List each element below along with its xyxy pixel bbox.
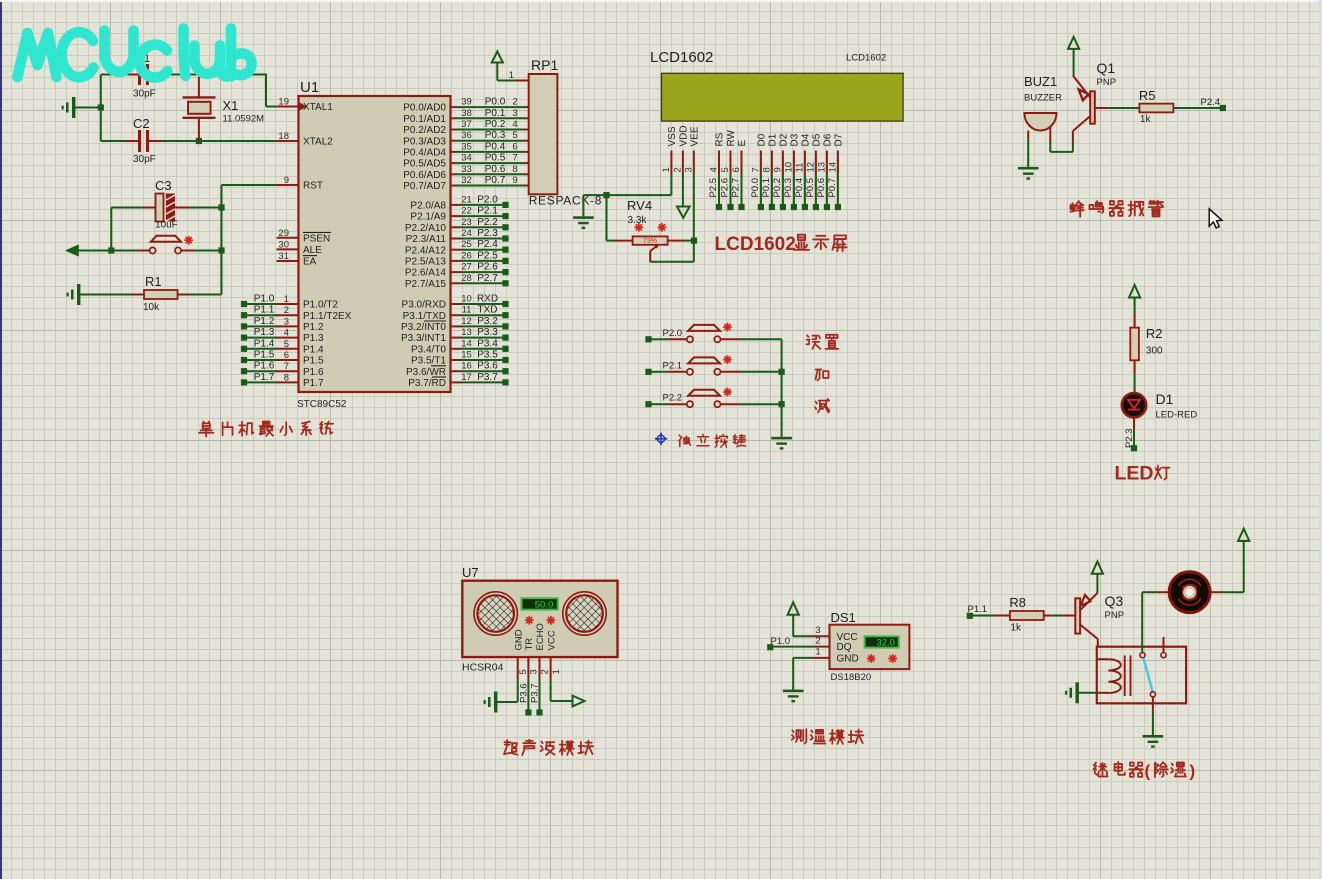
svg-text:10: 10: [461, 294, 472, 305]
svg-text:P3.2/INT0: P3.2/INT0: [401, 322, 446, 333]
svg-text:BUZZER: BUZZER: [1024, 93, 1062, 104]
svg-text:P3.7: P3.7: [530, 683, 541, 703]
svg-text:P3.3/INT1: P3.3/INT1: [401, 333, 446, 344]
svg-text:P2.7: P2.7: [477, 273, 498, 284]
svg-text:31: 31: [278, 251, 289, 262]
svg-text:P0.3: P0.3: [783, 178, 794, 198]
svg-text:1k: 1k: [1140, 114, 1152, 125]
svg-text:P0.3: P0.3: [485, 130, 506, 141]
svg-text:LED-RED: LED-RED: [1156, 410, 1198, 421]
svg-text:P1.0: P1.0: [771, 636, 791, 647]
svg-text:PNP: PNP: [1097, 77, 1117, 88]
svg-text:P2.5: P2.5: [477, 250, 498, 261]
svg-text:34: 34: [461, 153, 472, 164]
svg-text:7: 7: [284, 361, 289, 372]
svg-text:D3: D3: [790, 133, 801, 146]
svg-text:TXD: TXD: [478, 305, 498, 316]
svg-text:P2.1: P2.1: [663, 360, 683, 371]
svg-text:LED: LED: [1115, 463, 1154, 485]
svg-text:P3.6: P3.6: [477, 361, 498, 372]
svg-text:XTAL2: XTAL2: [303, 137, 333, 148]
svg-text:P2.6: P2.6: [720, 178, 731, 198]
svg-text:P1.4: P1.4: [254, 338, 275, 349]
svg-text:30pF: 30pF: [133, 89, 156, 100]
svg-text:28: 28: [461, 273, 472, 284]
svg-text:P0.1: P0.1: [485, 108, 506, 119]
svg-text:P3.5: P3.5: [477, 350, 498, 361]
svg-text:3: 3: [284, 316, 289, 327]
svg-text:RXD: RXD: [477, 294, 498, 305]
svg-text:5: 5: [518, 669, 529, 674]
svg-text:7: 7: [512, 153, 517, 164]
svg-text:RP1: RP1: [531, 57, 558, 73]
svg-text:4: 4: [284, 328, 289, 339]
svg-text:P3.6/WR: P3.6/WR: [406, 367, 446, 378]
svg-text:P3.2: P3.2: [477, 316, 498, 327]
svg-text:TR: TR: [524, 638, 535, 651]
svg-text:5: 5: [720, 167, 731, 172]
svg-text:P2.3/A11: P2.3/A11: [406, 234, 447, 245]
svg-text:9: 9: [772, 167, 783, 172]
svg-text:P0.6: P0.6: [485, 164, 506, 175]
svg-text:1: 1: [815, 647, 820, 658]
svg-text:P1.5: P1.5: [303, 356, 324, 367]
svg-text:P0.4: P0.4: [485, 141, 506, 152]
svg-text:PSEN: PSEN: [303, 233, 330, 244]
svg-text:C2: C2: [133, 116, 150, 131]
svg-text:2: 2: [284, 305, 289, 316]
svg-text:300: 300: [1146, 346, 1163, 357]
svg-text:Q3: Q3: [1105, 593, 1124, 609]
svg-text:ECHO: ECHO: [535, 623, 546, 650]
svg-text:R1: R1: [145, 274, 162, 289]
svg-text:P0.5/AD5: P0.5/AD5: [403, 159, 446, 170]
svg-text:32: 32: [461, 175, 472, 186]
svg-text:9: 9: [512, 175, 517, 186]
svg-text:P3.3: P3.3: [477, 327, 498, 338]
svg-text:8: 8: [761, 167, 772, 172]
svg-text:6: 6: [512, 141, 517, 152]
svg-text:9: 9: [284, 175, 289, 186]
svg-text:D1: D1: [768, 133, 779, 146]
svg-text:HCSR04: HCSR04: [462, 662, 504, 674]
svg-text:D7: D7: [834, 133, 845, 146]
svg-text:2: 2: [540, 669, 551, 674]
svg-text:LCD1602: LCD1602: [650, 49, 713, 66]
svg-text:7: 7: [750, 167, 761, 172]
svg-text:2: 2: [815, 635, 820, 646]
svg-text:P1.0: P1.0: [254, 294, 275, 305]
svg-text:6: 6: [731, 167, 742, 172]
svg-text:RW: RW: [726, 129, 737, 146]
svg-text:13: 13: [461, 327, 472, 338]
svg-text:GND: GND: [837, 654, 859, 665]
svg-text:P0.7: P0.7: [485, 175, 506, 186]
svg-text:P1.5: P1.5: [254, 350, 275, 361]
svg-text:26: 26: [461, 250, 472, 261]
svg-text:P0.0: P0.0: [750, 178, 761, 198]
svg-text:P1.7: P1.7: [303, 378, 324, 389]
svg-text:P1.7: P1.7: [254, 372, 275, 383]
svg-text:3: 3: [683, 167, 694, 172]
svg-text:X1: X1: [223, 98, 239, 113]
svg-text:U7: U7: [462, 565, 479, 580]
svg-text:11.0592M: 11.0592M: [223, 114, 265, 125]
svg-text:LCD1602: LCD1602: [846, 53, 886, 64]
svg-text:P2.0: P2.0: [477, 194, 498, 205]
svg-text:25: 25: [461, 239, 472, 250]
svg-text:36: 36: [461, 130, 472, 141]
svg-text:P0.7/AD7: P0.7/AD7: [403, 181, 446, 192]
svg-text:1k: 1k: [1010, 623, 1022, 634]
svg-text:P3.7: P3.7: [477, 372, 498, 383]
svg-text:R2: R2: [1146, 326, 1163, 341]
svg-text:P2.1: P2.1: [477, 206, 498, 217]
svg-text:P0.1/AD1: P0.1/AD1: [403, 114, 446, 125]
svg-text:P0.0/AD0: P0.0/AD0: [403, 103, 446, 114]
svg-text:P0.6: P0.6: [816, 178, 827, 198]
svg-text:P2.0: P2.0: [663, 328, 683, 339]
svg-text:VDD: VDD: [679, 125, 690, 146]
svg-text:1: 1: [509, 70, 514, 81]
svg-text:P3.5/T1: P3.5/T1: [411, 356, 446, 367]
svg-text:P2.4: P2.4: [477, 239, 498, 250]
svg-text:P2.7: P2.7: [731, 178, 742, 198]
svg-text:22: 22: [461, 206, 472, 217]
svg-text:24: 24: [461, 228, 472, 239]
svg-text:P2.6/A14: P2.6/A14: [405, 268, 447, 279]
svg-text:6: 6: [284, 350, 289, 361]
svg-text:33: 33: [461, 164, 472, 175]
svg-text:P3.0/RXD: P3.0/RXD: [402, 300, 446, 311]
svg-text:17: 17: [461, 372, 472, 383]
svg-text:18: 18: [278, 131, 289, 142]
svg-text:RS: RS: [715, 132, 726, 146]
svg-text:P1.2: P1.2: [254, 316, 275, 327]
svg-text:10: 10: [783, 162, 794, 173]
svg-text:EA: EA: [303, 257, 317, 268]
svg-text:P1.4: P1.4: [303, 344, 324, 355]
svg-text:P0.1: P0.1: [761, 178, 772, 198]
svg-text:12: 12: [805, 162, 816, 173]
svg-text:P0.2: P0.2: [485, 119, 506, 130]
svg-text:P2.1/A9: P2.1/A9: [410, 212, 446, 223]
svg-text:8: 8: [512, 164, 517, 175]
svg-text:8: 8: [284, 372, 289, 383]
svg-text:VCC: VCC: [546, 630, 557, 650]
svg-text:1: 1: [551, 669, 562, 674]
svg-text:D0: D0: [757, 133, 768, 146]
svg-text:30: 30: [278, 239, 289, 250]
svg-text:BUZ1: BUZ1: [1024, 74, 1057, 89]
svg-text:14: 14: [827, 162, 838, 173]
svg-text:D4: D4: [801, 133, 812, 146]
svg-text:10uF: 10uF: [155, 220, 178, 231]
svg-text:): ): [1190, 762, 1196, 781]
svg-text:P2.2: P2.2: [663, 393, 683, 404]
svg-text:D1: D1: [1156, 391, 1174, 407]
svg-text:2: 2: [672, 167, 683, 172]
svg-text:32.0: 32.0: [876, 638, 895, 649]
svg-text:30pF: 30pF: [133, 154, 156, 165]
svg-text:21: 21: [461, 194, 472, 205]
svg-text:R8: R8: [1009, 595, 1026, 610]
svg-text:C3: C3: [155, 178, 172, 193]
svg-text:P1.2: P1.2: [303, 322, 324, 333]
svg-text:P3.6: P3.6: [518, 683, 529, 703]
svg-text:RV4: RV4: [627, 198, 652, 213]
svg-text:P3.4: P3.4: [477, 338, 498, 349]
svg-text:P0.5: P0.5: [805, 178, 816, 198]
svg-text:23: 23: [461, 217, 472, 228]
svg-text:P2.2/A10: P2.2/A10: [405, 223, 447, 234]
svg-text:P2.0/A8: P2.0/A8: [410, 201, 446, 212]
svg-text:DS1: DS1: [831, 610, 856, 625]
svg-text:P2.2: P2.2: [477, 217, 498, 228]
svg-text:P0.4/AD4: P0.4/AD4: [403, 148, 446, 159]
svg-text:2: 2: [512, 97, 517, 108]
svg-text:LCD1602: LCD1602: [715, 234, 796, 255]
svg-text:13: 13: [816, 162, 827, 173]
svg-text:16: 16: [461, 361, 472, 372]
svg-text:P1.6: P1.6: [303, 367, 324, 378]
svg-text:29: 29: [278, 228, 289, 239]
svg-text:(: (: [1145, 762, 1151, 781]
svg-text:U1: U1: [300, 79, 319, 96]
svg-text:37: 37: [461, 119, 472, 130]
svg-text:12: 12: [461, 316, 472, 327]
svg-text:P2.7/A15: P2.7/A15: [405, 279, 447, 290]
svg-text:P2.4/A12: P2.4/A12: [405, 245, 447, 256]
svg-text:P0.7: P0.7: [827, 178, 838, 198]
svg-text:4: 4: [512, 119, 517, 130]
svg-text:P3.7/RD: P3.7/RD: [408, 378, 446, 389]
svg-text:39: 39: [461, 97, 472, 108]
svg-text:VEE: VEE: [689, 126, 700, 146]
svg-text:DQ: DQ: [837, 642, 852, 653]
svg-text:27: 27: [461, 262, 472, 273]
svg-text:P0.4: P0.4: [794, 178, 805, 198]
svg-text:P1.0/T2: P1.0/T2: [303, 300, 338, 311]
svg-text:P2.3: P2.3: [477, 228, 498, 239]
svg-text:1: 1: [284, 294, 289, 305]
svg-text:P1.3: P1.3: [303, 333, 324, 344]
svg-text:PNP: PNP: [1105, 610, 1125, 621]
svg-text:P0.3/AD3: P0.3/AD3: [403, 136, 446, 147]
svg-text:35: 35: [461, 141, 472, 152]
svg-text:E: E: [737, 140, 748, 147]
svg-text:3.3k: 3.3k: [628, 215, 648, 226]
svg-text:Q1: Q1: [1097, 60, 1116, 76]
svg-text:38: 38: [461, 108, 472, 119]
svg-text:D2: D2: [779, 133, 790, 146]
svg-text:P1.3: P1.3: [254, 327, 275, 338]
svg-text:P1.1/T2EX: P1.1/T2EX: [303, 311, 352, 322]
svg-text:P3.1/TXD: P3.1/TXD: [403, 311, 446, 322]
svg-text:P1.1: P1.1: [254, 305, 275, 316]
svg-text:11: 11: [462, 305, 472, 316]
svg-text:10k: 10k: [143, 302, 160, 313]
svg-text:P2.6: P2.6: [477, 262, 498, 273]
svg-text:ALE: ALE: [303, 245, 322, 256]
svg-text:15: 15: [461, 350, 472, 361]
svg-text:P2.5: P2.5: [708, 178, 719, 198]
svg-text:STC89C52: STC89C52: [297, 399, 347, 410]
svg-text:73%: 73%: [643, 238, 657, 245]
svg-text:R5: R5: [1139, 88, 1156, 103]
svg-text:P2.5/A13: P2.5/A13: [405, 257, 447, 268]
svg-text:D5: D5: [812, 133, 823, 146]
svg-text:5: 5: [284, 339, 289, 350]
svg-text:5: 5: [512, 130, 517, 141]
svg-text:P0.2: P0.2: [772, 178, 783, 198]
svg-text:11: 11: [794, 163, 805, 173]
svg-text:P0.2/AD2: P0.2/AD2: [403, 125, 446, 136]
svg-text:P0.6/AD6: P0.6/AD6: [403, 170, 446, 181]
svg-text:GND: GND: [513, 629, 524, 650]
svg-text:P2.4: P2.4: [1201, 97, 1221, 108]
svg-text:VSS: VSS: [667, 126, 678, 146]
svg-text:DS18B20: DS18B20: [831, 672, 872, 683]
svg-text:P0.0: P0.0: [485, 97, 506, 108]
svg-text:P1.6: P1.6: [254, 361, 275, 372]
svg-text:P2.3: P2.3: [1124, 428, 1135, 448]
svg-text:D6: D6: [823, 133, 834, 146]
svg-text:3: 3: [512, 108, 517, 119]
svg-text:P3.4/T0: P3.4/T0: [411, 344, 446, 355]
svg-text:14: 14: [461, 338, 472, 349]
svg-text:RST: RST: [303, 181, 323, 192]
svg-text:4: 4: [709, 167, 720, 172]
svg-text:P0.5: P0.5: [485, 153, 506, 164]
svg-text:19: 19: [278, 97, 289, 108]
svg-text:1: 1: [661, 167, 672, 172]
svg-text:XTAL1: XTAL1: [303, 102, 333, 113]
svg-text:50.0: 50.0: [535, 600, 554, 611]
svg-text:3: 3: [529, 669, 540, 674]
